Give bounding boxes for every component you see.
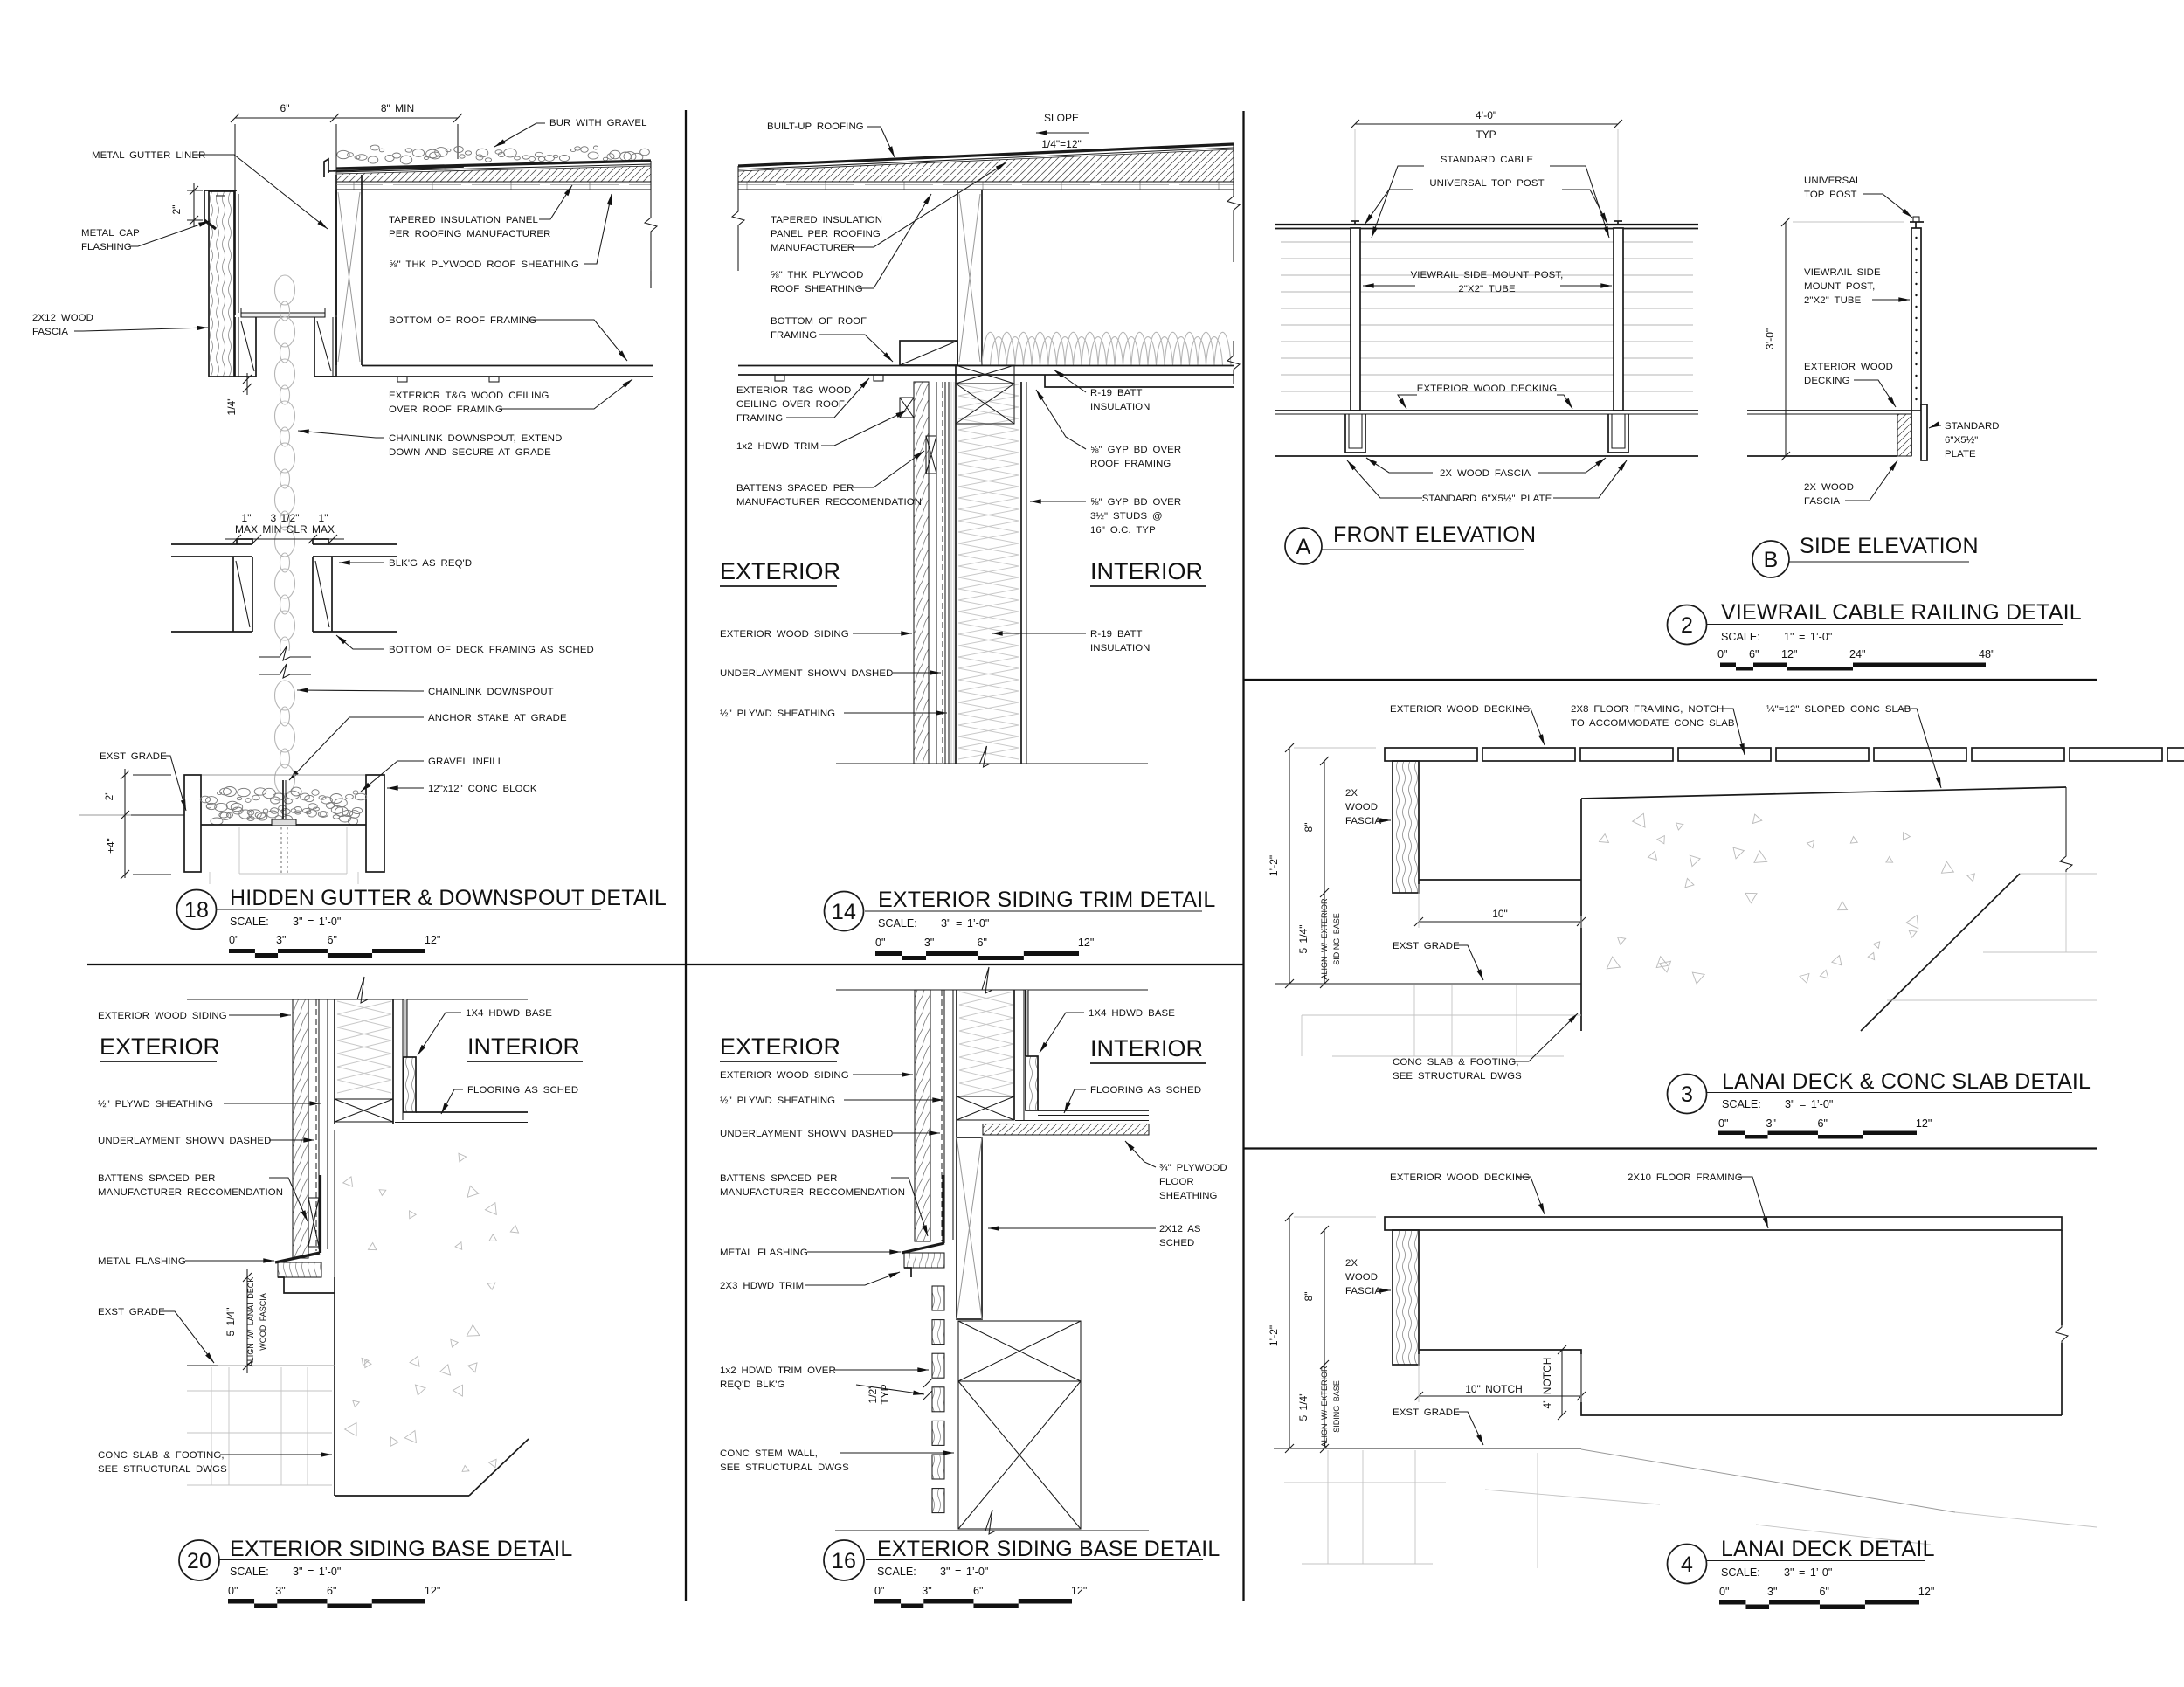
svg-text:OVER ROOF FRAMING: OVER ROOF FRAMING [389,404,503,415]
svg-text:VIEWRAIL SIDE MOUNT POST,: VIEWRAIL SIDE MOUNT POST, [1411,270,1564,280]
svg-text:EXTERIOR T&G WOOD CEILING: EXTERIOR T&G WOOD CEILING [389,391,549,401]
svg-text:16" O.C. TYP: 16" O.C. TYP [1090,525,1156,536]
svg-text:CHAINLINK DOWNSPOUT, EXTEND: CHAINLINK DOWNSPOUT, EXTEND [389,433,562,444]
svg-text:REQ'D BLK'G: REQ'D BLK'G [720,1379,785,1390]
svg-text:12": 12" [1078,937,1094,949]
svg-text:BATTENS SPACED PER: BATTENS SPACED PER [98,1173,215,1184]
svg-text:EXST GRADE: EXST GRADE [100,751,167,762]
svg-text:⅝" THK PLYWOOD ROOF SHEATHING: ⅝" THK PLYWOOD ROOF SHEATHING [389,259,579,270]
svg-text:6": 6" [973,1585,983,1597]
svg-text:PANEL PER ROOFING: PANEL PER ROOFING [771,229,881,239]
svg-text:12": 12" [1071,1585,1087,1597]
svg-text:MANUFACTURER RECCOMENDATION: MANUFACTURER RECCOMENDATION [98,1187,283,1198]
svg-text:0": 0" [228,1585,238,1597]
svg-text:FLASHING: FLASHING [81,242,132,252]
svg-text:5 1/4": 5 1/4" [1297,1393,1310,1421]
svg-text:12": 12" [425,1585,440,1597]
svg-text:3" = 1’-0": 3" = 1’-0" [1784,1566,1832,1579]
svg-text:ROOF FRAMING: ROOF FRAMING [1090,459,1171,469]
svg-text:DECKING: DECKING [1804,376,1850,386]
svg-text:6": 6" [280,102,290,114]
svg-text:DOWN AND SECURE AT GRADE: DOWN AND SECURE AT GRADE [389,447,551,458]
svg-text:EXTERIOR SIDING TRIM DETAIL: EXTERIOR SIDING TRIM DETAIL [878,888,1215,912]
svg-text:ALIGN W/ EXTERIOR: ALIGN W/ EXTERIOR [1320,1366,1329,1448]
svg-text:12": 12" [1916,1117,1932,1130]
svg-text:VIEWRAIL SIDE: VIEWRAIL SIDE [1804,267,1881,278]
svg-text:R-19 BATT: R-19 BATT [1090,629,1143,640]
svg-text:4" NOTCH: 4" NOTCH [1541,1358,1553,1409]
svg-text:MANUFACTURER RECCOMENDATION: MANUFACTURER RECCOMENDATION [736,497,922,508]
svg-text:EXTERIOR WOOD DECKING: EXTERIOR WOOD DECKING [1390,1172,1530,1183]
svg-text:EXTERIOR SIDING BASE DETAIL: EXTERIOR SIDING BASE DETAIL [877,1537,1220,1561]
svg-text:BOTTOM OF DECK FRAMING AS SCHE: BOTTOM OF DECK FRAMING AS SCHED [389,645,594,655]
svg-text:16: 16 [832,1549,856,1573]
svg-text:3: 3 [1681,1082,1693,1107]
svg-text:SCALE:: SCALE: [1721,1566,1760,1579]
svg-text:1x2 HDWD TRIM: 1x2 HDWD TRIM [736,441,819,452]
svg-text:SCALE:: SCALE: [230,916,269,928]
svg-text:EXTERIOR: EXTERIOR [720,558,840,584]
svg-text:SEE STRUCTURAL DWGS: SEE STRUCTURAL DWGS [1393,1071,1522,1082]
svg-text:TO ACCOMMODATE CONC SLAB: TO ACCOMMODATE CONC SLAB [1571,718,1735,729]
svg-text:8" MIN: 8" MIN [381,102,414,114]
svg-text:GRAVEL INFILL: GRAVEL INFILL [428,757,503,767]
svg-text:2: 2 [1681,613,1693,638]
svg-text:1/4"=12": 1/4"=12" [1041,138,1082,150]
svg-text:FASCIA: FASCIA [1345,816,1381,826]
svg-text:EXTERIOR WOOD DECKING: EXTERIOR WOOD DECKING [1390,704,1530,715]
svg-text:24": 24" [1849,648,1865,660]
svg-text:STANDARD: STANDARD [1945,421,2000,432]
svg-text:6": 6" [1820,1586,1829,1598]
svg-text:3": 3" [922,1585,931,1597]
svg-text:MIN CLR: MIN CLR [262,523,308,536]
svg-text:SCALE:: SCALE: [1722,1098,1761,1110]
svg-text:HIDDEN GUTTER & DOWNSPOUT DETA: HIDDEN GUTTER & DOWNSPOUT DETAIL [230,886,667,910]
svg-text:TYP: TYP [879,1384,891,1404]
svg-text:10": 10" [1492,908,1508,920]
svg-text:3": 3" [276,934,286,946]
svg-text:FASCIA: FASCIA [32,327,68,337]
svg-text:EXST GRADE: EXST GRADE [1393,1407,1460,1418]
svg-text:TOP POST: TOP POST [1804,190,1857,200]
svg-text:ALIGN W/ LANAI DECK: ALIGN W/ LANAI DECK [246,1277,255,1367]
svg-text:VIEWRAIL CABLE RAILING DETAIL: VIEWRAIL CABLE RAILING DETAIL [1721,600,2082,625]
svg-text:3½" STUDS @: 3½" STUDS @ [1090,511,1163,522]
svg-text:TAPERED INSULATION: TAPERED INSULATION [771,215,882,225]
svg-text:MANUFACTURER: MANUFACTURER [771,243,854,253]
svg-text:BATTENS SPACED PER: BATTENS SPACED PER [736,483,854,494]
svg-text:1": 1" [242,512,252,524]
svg-text:2"X2" TUBE: 2"X2" TUBE [1458,284,1516,294]
svg-text:UNDERLAYMENT SHOWN DASHED: UNDERLAYMENT SHOWN DASHED [720,1129,893,1139]
svg-text:⅝" THK PLYWOOD: ⅝" THK PLYWOOD [771,270,863,280]
svg-text:1’-2": 1’-2" [1268,855,1280,876]
svg-text:1" = 1’-0": 1" = 1’-0" [1784,631,1832,643]
svg-text:B: B [1764,548,1779,572]
svg-text:SIDING BASE: SIDING BASE [1332,1380,1341,1433]
svg-text:1X4 HDWD BASE: 1X4 HDWD BASE [1089,1008,1175,1019]
svg-text:1’-2": 1’-2" [1268,1325,1280,1346]
svg-text:12": 12" [1918,1586,1934,1598]
svg-text:2X12 WOOD: 2X12 WOOD [32,313,93,323]
svg-text:6": 6" [978,937,987,949]
svg-text:2X3 HDWD TRIM: 2X3 HDWD TRIM [720,1281,804,1291]
svg-text:3’-0": 3’-0" [1764,328,1776,349]
svg-text:PLATE: PLATE [1945,449,1976,460]
svg-text:EXTERIOR WOOD SIDING: EXTERIOR WOOD SIDING [720,1070,849,1081]
svg-text:SEE STRUCTURAL DWGS: SEE STRUCTURAL DWGS [720,1462,849,1473]
svg-text:ALIGN W/ EXTERIOR: ALIGN W/ EXTERIOR [1320,898,1329,980]
svg-text:BLK'G AS REQ'D: BLK'G AS REQ'D [389,558,472,569]
svg-text:2": 2" [170,205,183,215]
svg-text:3" = 1’-0": 3" = 1’-0" [941,917,989,930]
svg-text:UNIVERSAL: UNIVERSAL [1804,176,1861,186]
svg-text:CONC SLAB & FOOTING,: CONC SLAB & FOOTING, [1393,1057,1519,1068]
svg-text:3 1/2": 3 1/2" [271,512,300,524]
svg-text:3" = 1’-0": 3" = 1’-0" [1785,1098,1833,1110]
svg-text:3" = 1’-0": 3" = 1’-0" [293,916,341,928]
svg-text:½" PLYWD SHEATHING: ½" PLYWD SHEATHING [720,1096,835,1106]
svg-text:EXST GRADE: EXST GRADE [1393,941,1460,951]
svg-text:BATTENS SPACED PER: BATTENS SPACED PER [720,1173,837,1184]
svg-text:6": 6" [1749,648,1759,660]
svg-text:2X WOOD: 2X WOOD [1804,482,1854,493]
svg-text:1": 1" [319,512,328,524]
svg-text:METAL GUTTER LINER: METAL GUTTER LINER [92,150,205,161]
svg-text:EXTERIOR WOOD SIDING: EXTERIOR WOOD SIDING [98,1011,227,1021]
svg-text:0": 0" [874,1585,884,1597]
svg-text:¼"=12" SLOPED CONC SLAB: ¼"=12" SLOPED CONC SLAB [1766,704,1911,715]
svg-text:2X: 2X [1345,788,1358,799]
svg-text:INTERIOR: INTERIOR [467,1034,580,1060]
svg-text:18: 18 [184,898,209,923]
svg-text:LANAI DECK & CONC SLAB DETAIL: LANAI DECK & CONC SLAB DETAIL [1722,1069,2091,1094]
svg-text:WOOD: WOOD [1345,802,1378,812]
svg-text:UNDERLAYMENT SHOWN DASHED: UNDERLAYMENT SHOWN DASHED [98,1136,271,1146]
svg-text:FRAMING: FRAMING [736,413,783,424]
svg-text:CEILING OVER ROOF: CEILING OVER ROOF [736,399,845,410]
svg-text:12"x12" CONC BLOCK: 12"x12" CONC BLOCK [428,784,537,794]
svg-text:8": 8" [1303,1292,1315,1302]
svg-text:5 1/4": 5 1/4" [1297,925,1310,954]
svg-text:MAX: MAX [235,523,258,536]
svg-text:STANDARD 6"X5½" PLATE: STANDARD 6"X5½" PLATE [1422,494,1552,504]
svg-text:1x2 HDWD TRIM OVER: 1x2 HDWD TRIM OVER [720,1366,836,1376]
svg-text:3": 3" [1767,1586,1777,1598]
svg-text:BOTTOM OF ROOF: BOTTOM OF ROOF [771,316,867,327]
svg-text:LANAI DECK DETAIL: LANAI DECK DETAIL [1721,1537,1935,1561]
svg-text:20: 20 [187,1549,211,1573]
svg-text:EXTERIOR T&G WOOD: EXTERIOR T&G WOOD [736,385,851,396]
svg-text:½" PLYWD SHEATHING: ½" PLYWD SHEATHING [720,709,835,719]
svg-text:WOOD FASCIA: WOOD FASCIA [259,1293,267,1351]
svg-text:BOTTOM OF ROOF FRAMING: BOTTOM OF ROOF FRAMING [389,315,536,326]
svg-text:0": 0" [1718,1117,1728,1130]
svg-text:TYP: TYP [1476,128,1496,141]
svg-text:SIDING BASE: SIDING BASE [1332,913,1341,965]
svg-text:2X10 FLOOR FRAMING: 2X10 FLOOR FRAMING [1628,1172,1743,1183]
svg-text:FRAMING: FRAMING [771,330,817,341]
svg-text:4: 4 [1681,1552,1693,1577]
svg-text:INTERIOR: INTERIOR [1090,1035,1203,1061]
svg-text:1/2": 1/2" [867,1386,879,1404]
svg-text:FLOORING AS SCHED: FLOORING AS SCHED [467,1085,578,1096]
svg-text:8": 8" [1303,823,1315,833]
svg-text:2"X2" TUBE: 2"X2" TUBE [1804,295,1862,306]
svg-text:INTERIOR: INTERIOR [1090,558,1203,584]
svg-text:FASCIA: FASCIA [1345,1286,1381,1296]
svg-text:EXTERIOR: EXTERIOR [100,1034,220,1060]
svg-text:0": 0" [875,937,885,949]
svg-text:½" PLYWD SHEATHING: ½" PLYWD SHEATHING [98,1099,213,1110]
svg-text:MAX: MAX [312,523,335,536]
svg-text:R-19 BATT: R-19 BATT [1090,388,1143,398]
svg-text:4’-0": 4’-0" [1476,109,1496,121]
svg-text:2X WOOD FASCIA: 2X WOOD FASCIA [1440,468,1531,479]
svg-text:EXTERIOR SIDING BASE DETAIL: EXTERIOR SIDING BASE DETAIL [230,1537,573,1561]
svg-text:12": 12" [425,934,440,946]
svg-text:¾" PLYWOOD: ¾" PLYWOOD [1159,1163,1227,1173]
svg-text:PER ROOFING MANUFACTURER: PER ROOFING MANUFACTURER [389,229,550,239]
svg-text:SCALE:: SCALE: [230,1566,269,1578]
svg-text:6": 6" [327,1585,336,1597]
svg-text:INSULATION: INSULATION [1090,643,1151,653]
svg-text:MOUNT POST,: MOUNT POST, [1804,281,1875,292]
svg-text:UNDERLAYMENT SHOWN DASHED: UNDERLAYMENT SHOWN DASHED [720,668,893,679]
svg-text:2X12 AS: 2X12 AS [1159,1224,1201,1234]
svg-text:5 1/4": 5 1/4" [225,1308,237,1337]
svg-text:2X: 2X [1345,1258,1358,1269]
svg-text:EXTERIOR WOOD DECKING: EXTERIOR WOOD DECKING [1417,384,1557,394]
svg-text:ROOF SHEATHING: ROOF SHEATHING [771,284,863,294]
svg-text:CONC SLAB & FOOTING,: CONC SLAB & FOOTING, [98,1450,225,1461]
svg-text:6": 6" [1818,1117,1828,1130]
svg-text:3": 3" [1766,1117,1775,1130]
svg-text:3" = 1’-0": 3" = 1’-0" [293,1566,341,1578]
svg-text:BUR WITH GRAVEL: BUR WITH GRAVEL [549,118,647,128]
svg-text:SHEATHING: SHEATHING [1159,1191,1218,1201]
svg-text:BUILT-UP ROOFING: BUILT-UP ROOFING [767,121,864,132]
svg-text:SIDE ELEVATION: SIDE ELEVATION [1800,534,1979,558]
svg-text:1X4 HDWD BASE: 1X4 HDWD BASE [466,1008,552,1019]
svg-text:STANDARD CABLE: STANDARD CABLE [1441,155,1534,165]
svg-text:SCALE:: SCALE: [878,917,917,930]
svg-text:METAL FLASHING: METAL FLASHING [720,1248,808,1258]
svg-text:A: A [1296,535,1311,559]
svg-text:SEE STRUCTURAL DWGS: SEE STRUCTURAL DWGS [98,1464,227,1475]
svg-text:EXTERIOR WOOD: EXTERIOR WOOD [1804,362,1893,372]
svg-text:CONC STEM WALL,: CONC STEM WALL, [720,1448,818,1459]
svg-text:⅝" GYP BD OVER: ⅝" GYP BD OVER [1090,445,1181,455]
svg-text:48": 48" [1979,648,1994,660]
svg-text:3": 3" [924,937,934,949]
svg-text:SCALE:: SCALE: [877,1566,916,1578]
svg-text:SCALE:: SCALE: [1721,631,1760,643]
svg-text:14: 14 [832,900,856,924]
svg-text:⅝" GYP BD OVER: ⅝" GYP BD OVER [1090,497,1181,508]
svg-text:WOOD: WOOD [1345,1272,1378,1283]
svg-text:6": 6" [328,934,337,946]
svg-text:3": 3" [275,1585,285,1597]
svg-text:METAL CAP: METAL CAP [81,228,140,239]
svg-text:TAPERED INSULATION PANEL: TAPERED INSULATION PANEL [389,215,538,225]
svg-text:2": 2" [103,792,115,801]
svg-text:MANUFACTURER RECCOMENDATION: MANUFACTURER RECCOMENDATION [720,1187,905,1198]
svg-text:12": 12" [1781,648,1797,660]
svg-text:10" NOTCH: 10" NOTCH [1465,1383,1523,1395]
svg-text:3" = 1’-0": 3" = 1’-0" [940,1566,988,1578]
svg-text:0": 0" [229,934,238,946]
svg-text:EXTERIOR: EXTERIOR [720,1034,840,1060]
svg-text:CHAINLINK DOWNSPOUT: CHAINLINK DOWNSPOUT [428,687,554,697]
svg-text:UNIVERSAL TOP POST: UNIVERSAL TOP POST [1429,178,1544,189]
svg-text:2X8 FLOOR FRAMING, NOTCH: 2X8 FLOOR FRAMING, NOTCH [1571,704,1724,715]
svg-text:0": 0" [1717,648,1727,660]
svg-text:±4": ±4" [105,838,117,854]
svg-text:INSULATION: INSULATION [1090,402,1151,412]
svg-text:ANCHOR STAKE AT GRADE: ANCHOR STAKE AT GRADE [428,713,567,723]
svg-text:1/4": 1/4" [225,398,238,416]
svg-text:FLOORING AS SCHED: FLOORING AS SCHED [1090,1085,1201,1096]
svg-text:6"X5½": 6"X5½" [1945,435,1978,446]
svg-text:EXTERIOR WOOD SIDING: EXTERIOR WOOD SIDING [720,629,849,640]
svg-text:SCHED: SCHED [1159,1238,1194,1248]
svg-text:METAL FLASHING: METAL FLASHING [98,1256,186,1267]
svg-text:FASCIA: FASCIA [1804,496,1840,507]
svg-text:SLOPE: SLOPE [1044,112,1079,124]
svg-text:FLOOR: FLOOR [1159,1177,1194,1187]
svg-text:EXST GRADE: EXST GRADE [98,1307,165,1317]
svg-text:FRONT ELEVATION: FRONT ELEVATION [1333,522,1536,547]
svg-text:0": 0" [1719,1586,1729,1598]
